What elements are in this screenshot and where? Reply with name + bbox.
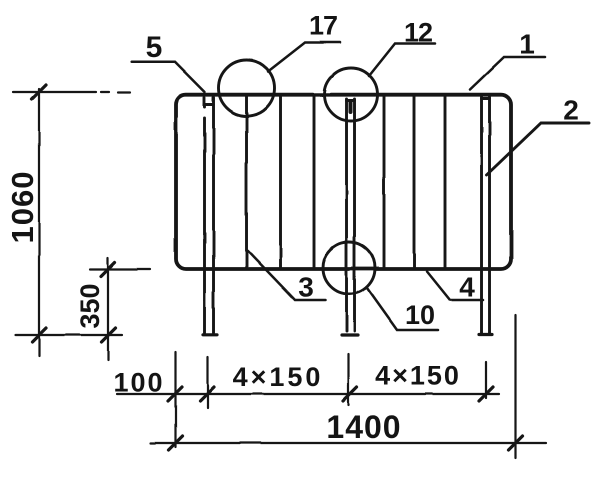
extension line below panel left edge [174, 352, 176, 447]
svg-text:4×150: 4×150 [375, 361, 461, 391]
bar 1 [245, 96, 248, 268]
svg-text:1: 1 [519, 29, 535, 60]
leader label 4 [427, 272, 483, 301]
bar 5 [413, 96, 416, 268]
svg-text:10: 10 [405, 300, 435, 330]
bar 6 [444, 96, 447, 268]
extension line right for 1400 [514, 315, 516, 458]
leader label 2 [487, 123, 590, 175]
extension line top at y92 [13, 91, 130, 94]
detail circle top-left (17) [219, 60, 275, 116]
bar 3 [313, 96, 316, 268]
svg-text:3: 3 [298, 272, 314, 303]
bar 2 [279, 96, 282, 268]
svg-text:17: 17 [309, 11, 337, 41]
detail circle top-middle (12) [325, 68, 378, 121]
svg-text:5: 5 [146, 31, 163, 64]
svg-text:4: 4 [459, 272, 475, 303]
extension line below right post [485, 362, 487, 398]
leader label 1 [470, 57, 545, 90]
post left (item 5 area) [203, 98, 217, 335]
svg-text:1060: 1060 [5, 171, 40, 244]
fence panel frame [176, 95, 511, 269]
leader label 3 [248, 251, 325, 300]
leader label 10 [367, 288, 438, 330]
post middle [342, 99, 358, 335]
svg-text:12: 12 [404, 18, 432, 48]
dimension row 100 / 4x150 line [117, 393, 499, 395]
dimension row 1400 line [151, 442, 546, 444]
tick slashes [32, 85, 523, 450]
extension line bottom shared y335 [15, 334, 122, 336]
post right [479, 97, 492, 335]
svg-text:100: 100 [113, 368, 164, 398]
extension line below middle post [347, 354, 349, 405]
leader label 12 [369, 44, 435, 77]
svg-text:1400: 1400 [326, 409, 401, 445]
svg-text:4×150: 4×150 [233, 362, 324, 392]
dimension 1060 vertical line [38, 89, 40, 356]
dimension 350 vertical line [107, 258, 109, 360]
extension line 350 top y269.5 [90, 268, 150, 270]
extension line below left post [206, 357, 208, 408]
bar 4 [383, 96, 386, 268]
leader label 5 [132, 62, 205, 92]
svg-text:350: 350 [75, 283, 105, 328]
svg-text:2: 2 [563, 95, 579, 126]
leader label 17 [268, 43, 340, 72]
detail circle bottom-middle (10) [323, 242, 375, 294]
